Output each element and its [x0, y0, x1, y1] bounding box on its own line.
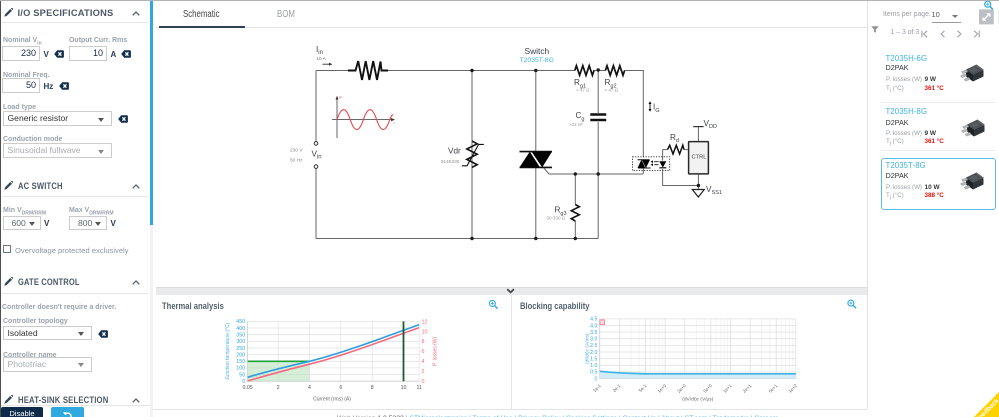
- svg-text:450: 450: [236, 319, 245, 325]
- svg-text:VSS1: VSS1: [706, 185, 722, 196]
- svg-text:6: 6: [422, 349, 425, 355]
- svg-text:4.0: 4.0: [590, 323, 597, 329]
- svg-text:Vin: Vin: [312, 150, 322, 161]
- svg-text:(dI/dt)c (A/ms): (dI/dt)c (A/ms): [585, 333, 591, 364]
- svg-text:300: 300: [236, 339, 245, 345]
- svg-text:2.0: 2.0: [590, 350, 597, 356]
- svg-text:50-330 Ω: 50-330 Ω: [547, 216, 566, 221]
- svg-text:200: 200: [236, 352, 245, 358]
- svg-text:350: 350: [236, 333, 245, 339]
- svg-text:6: 6: [339, 385, 342, 391]
- svg-text:t: t: [394, 122, 395, 126]
- svg-text:> 47 Ω: > 47 Ω: [605, 88, 619, 93]
- svg-text:VDD: VDD: [704, 119, 718, 130]
- svg-text:230 V: 230 V: [290, 148, 303, 154]
- svg-text:> 47 Ω: > 47 Ω: [576, 88, 590, 93]
- svg-text:IG: IG: [653, 103, 660, 114]
- svg-text:400: 400: [236, 326, 245, 332]
- svg-text:1e-1: 1e-1: [592, 383, 602, 393]
- svg-text:CTRL: CTRL: [692, 155, 707, 161]
- svg-text:4: 4: [422, 359, 425, 365]
- svg-text:5e+0: 5e+0: [702, 383, 713, 394]
- svg-text:5e+1: 5e+1: [768, 383, 779, 394]
- svg-text:T2035T-8G: T2035T-8G: [520, 57, 554, 64]
- svg-text:P. losses (W): P. losses (W): [433, 336, 439, 365]
- svg-text:1.5: 1.5: [590, 356, 597, 362]
- svg-text:10: 10: [401, 385, 407, 391]
- svg-text:Switch: Switch: [525, 46, 550, 56]
- svg-text:Cg: Cg: [576, 111, 585, 122]
- svg-text:2: 2: [422, 369, 425, 375]
- svg-text:10 A: 10 A: [317, 56, 327, 61]
- svg-text:0: 0: [595, 376, 598, 382]
- svg-text:50: 50: [239, 372, 245, 378]
- svg-text:Junction temperature (°C): Junction temperature (°C): [225, 322, 231, 380]
- svg-text:>22 nF: >22 nF: [569, 122, 583, 127]
- svg-text:0.5: 0.5: [590, 370, 597, 376]
- svg-text:3.0: 3.0: [590, 337, 597, 343]
- svg-text:10: 10: [422, 329, 428, 335]
- svg-text:2: 2: [277, 385, 280, 391]
- svg-text:150: 150: [236, 359, 245, 365]
- svg-text:8: 8: [422, 339, 425, 345]
- svg-text:3.5: 3.5: [590, 330, 597, 336]
- svg-text:1e+0: 1e+0: [657, 383, 668, 394]
- svg-text:4.5: 4.5: [590, 317, 597, 323]
- svg-text:2e-1: 2e-1: [612, 383, 622, 393]
- svg-text:Current (rms) (A): Current (rms) (A): [313, 397, 351, 403]
- svg-text:1e+2: 1e+2: [787, 383, 798, 394]
- svg-text:8: 8: [371, 385, 374, 391]
- svg-text:4: 4: [308, 385, 311, 391]
- svg-text:2.5: 2.5: [590, 343, 597, 349]
- svg-text:Vdr: Vdr: [448, 147, 461, 156]
- svg-text:514K230: 514K230: [441, 159, 460, 164]
- svg-text:m: m: [339, 96, 342, 100]
- svg-text:250: 250: [236, 346, 245, 352]
- svg-text:2e+1: 2e+1: [742, 383, 753, 394]
- svg-text:100: 100: [236, 366, 245, 372]
- svg-text:Iin: Iin: [316, 45, 323, 56]
- svg-text:0.05: 0.05: [243, 385, 253, 391]
- svg-text:(dV/dt)c (V/µs): (dV/dt)c (V/µs): [682, 397, 713, 403]
- svg-text:1e+1: 1e+1: [722, 383, 733, 394]
- svg-text:2e+0: 2e+0: [676, 383, 687, 394]
- svg-text:5e-1: 5e-1: [638, 383, 648, 393]
- svg-text:12: 12: [422, 319, 428, 325]
- svg-text:Rd: Rd: [670, 133, 679, 144]
- svg-text:0: 0: [422, 379, 425, 385]
- svg-text:11: 11: [417, 385, 422, 391]
- svg-text:1.0: 1.0: [590, 363, 597, 369]
- svg-text:50 Hz: 50 Hz: [290, 158, 303, 164]
